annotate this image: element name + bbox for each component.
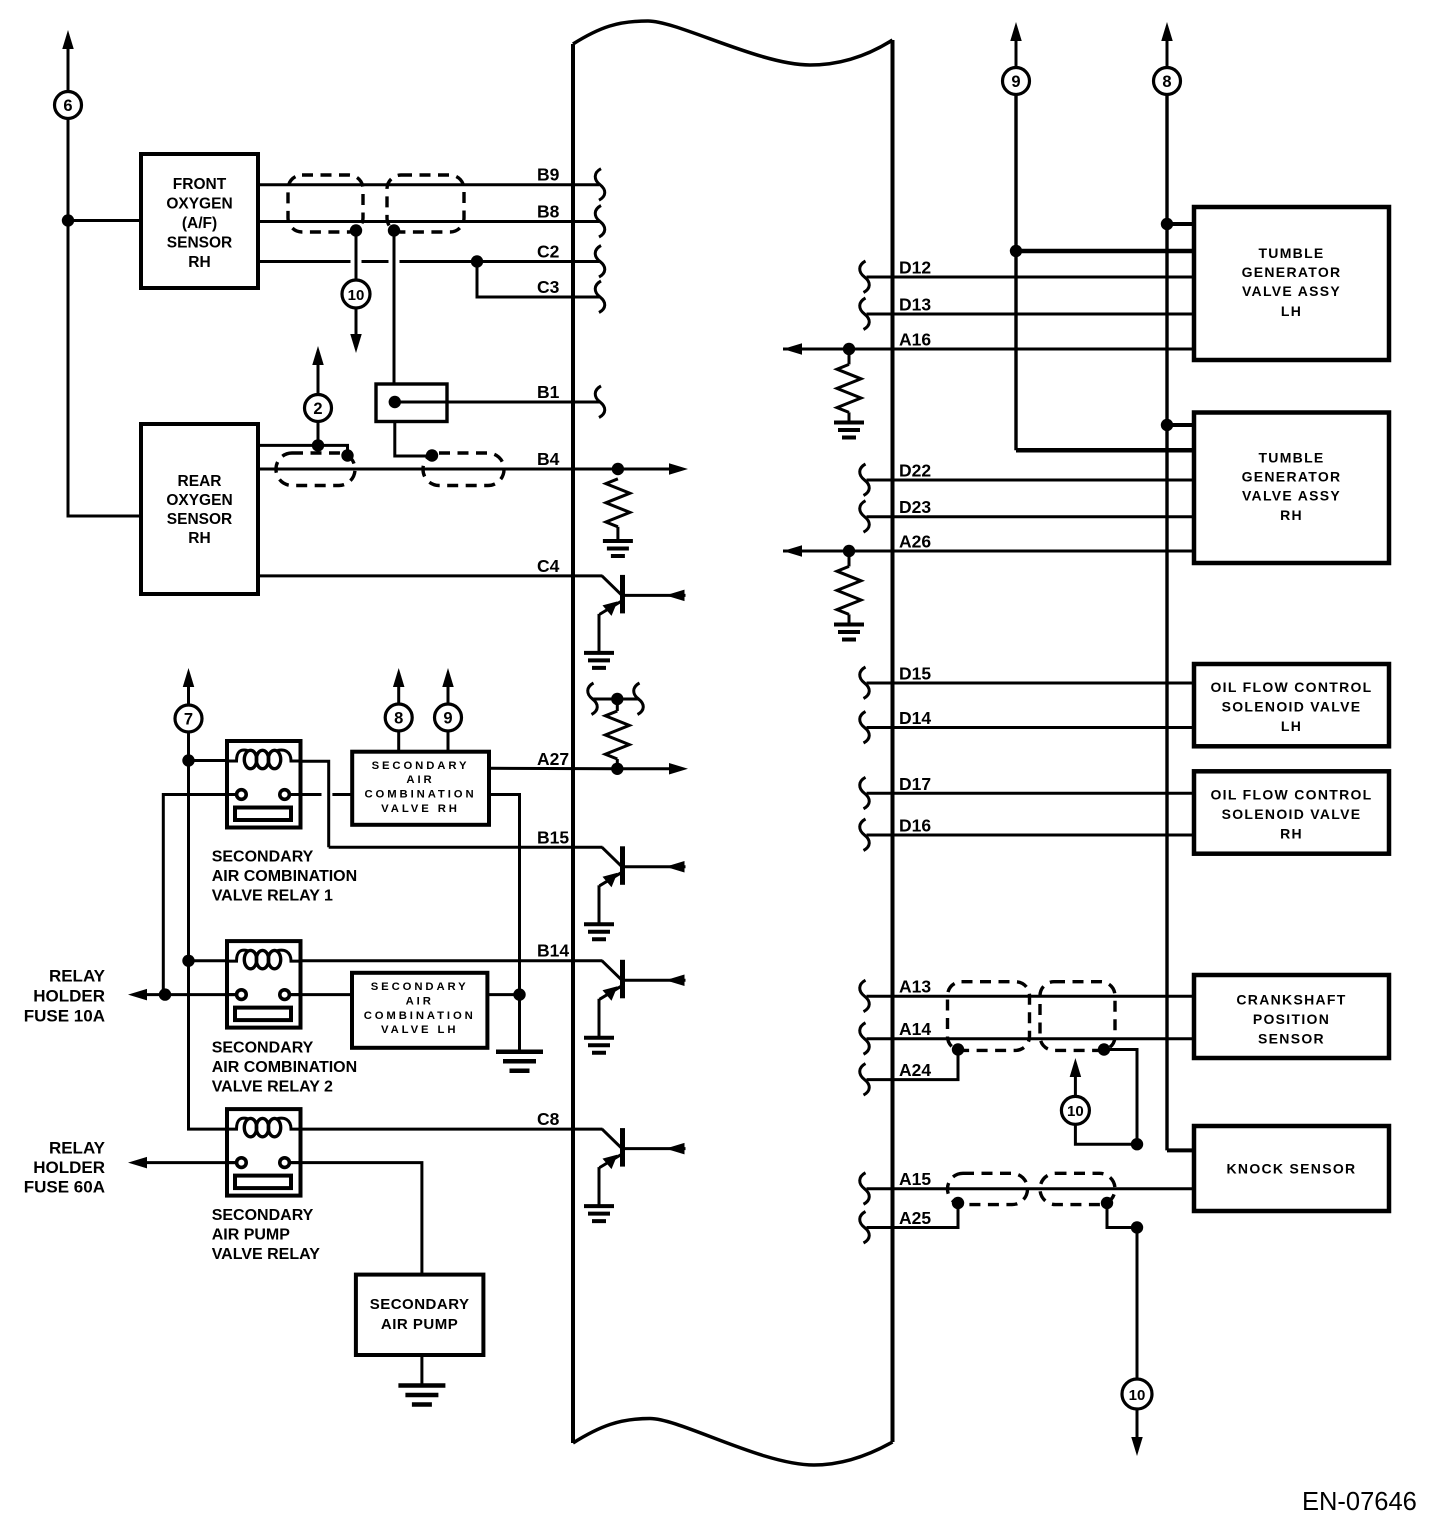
svg-text:RH: RH: [1280, 826, 1303, 842]
wire rail 8 to tumble RH: [1167, 423, 1194, 427]
knock sensor box: [1194, 1126, 1389, 1211]
svg-text:VALVE ASSY: VALVE ASSY: [1242, 488, 1341, 504]
wire D13: [867, 313, 1195, 316]
wire circle 2 stem: [317, 422, 320, 446]
svg-text:SECONDARY: SECONDARY: [372, 760, 470, 772]
svg-text:HOLDER: HOLDER: [33, 986, 105, 1005]
svg-text:(A/F): (A/F): [182, 215, 217, 232]
wire relay1 left terminal feed: [163, 795, 236, 995]
svg-text:A26: A26: [899, 532, 931, 552]
arrow up circuit 8 valve: [393, 668, 405, 687]
svg-text:LH: LH: [1281, 303, 1302, 319]
wire D15: [867, 682, 1195, 685]
front oxygen sensor box: [141, 154, 258, 288]
svg-text:GENERATOR: GENERATOR: [1242, 469, 1342, 485]
node rail 8 tumble RH tap: [1161, 419, 1173, 431]
pin B8 squiggle: [595, 206, 605, 238]
arrow up circuit 6: [62, 30, 74, 49]
circled 7: [175, 705, 202, 732]
node A15/A25 shield left: [952, 1197, 964, 1209]
tumble generator valve assy LH box: [1194, 207, 1389, 360]
wire B1 box down to B4 shield: [395, 422, 432, 457]
arrow up circuit 9 valve: [442, 668, 454, 687]
wire C2 (with crossover gaps): [258, 260, 599, 263]
wire resistor to ground: [616, 527, 619, 541]
circled 2: [305, 395, 332, 422]
svg-text:SENSOR: SENSOR: [167, 235, 232, 252]
svg-text:B4: B4: [537, 449, 560, 469]
transistor B14 driver: [602, 961, 622, 980]
wire rail 8 to tumble LH: [1167, 222, 1194, 226]
wire to front oxygen sensor: [68, 219, 141, 222]
pin D23 squiggle: [860, 501, 870, 533]
svg-text:A15: A15: [899, 1169, 931, 1189]
secondary air combination valve RH box: [352, 752, 489, 825]
svg-text:10: 10: [1129, 1387, 1146, 1404]
svg-text:LH: LH: [1281, 718, 1302, 734]
wire internal rail: [593, 698, 639, 701]
svg-text:A25: A25: [899, 1208, 931, 1228]
svg-text:D22: D22: [899, 461, 931, 481]
svg-text:2: 2: [313, 400, 322, 418]
wire B8: [258, 220, 599, 223]
node relay2 coil feed: [182, 955, 194, 967]
pin D12 squiggle: [860, 261, 870, 293]
ground A26 resistor: [834, 625, 864, 640]
ECM connector left edge: [571, 44, 575, 1443]
wire A27: [489, 767, 617, 771]
wire A26 resistor to ground: [848, 614, 851, 623]
svg-text:D16: D16: [899, 816, 931, 836]
relay secondary air combination valve relay 1: [227, 741, 301, 828]
svg-text:SECONDARY: SECONDARY: [371, 981, 469, 993]
wire A13: [867, 995, 1195, 998]
wire rear sensor top pin to shield: [258, 445, 348, 453]
pin D16 squiggle: [860, 819, 870, 851]
svg-text:AIR COMBINATION: AIR COMBINATION: [212, 1059, 357, 1076]
resistor A27 pullup: [605, 711, 629, 759]
resistor A16 pull: [837, 364, 861, 412]
shield capsule A13/A14 left: [948, 982, 1030, 1051]
resistor B4 pulldown: [606, 479, 630, 527]
svg-text:FUSE 10A: FUSE 10A: [24, 1006, 105, 1025]
node B1 junction: [389, 396, 401, 408]
arrow A16 internal: [783, 343, 802, 355]
svg-text:TUMBLE: TUMBLE: [1258, 450, 1324, 466]
wire valve LH right pin: [487, 993, 519, 996]
transistor B15 driver: [602, 847, 622, 866]
wire circle 8 to valve RH box: [397, 731, 400, 752]
wire rail 9 down to tumble RH: [1014, 95, 1017, 451]
junction box B1: [376, 384, 447, 422]
svg-text:D14: D14: [899, 708, 931, 728]
svg-text:COMBINATION: COMBINATION: [364, 789, 476, 801]
svg-text:RH: RH: [1280, 507, 1303, 523]
svg-text:D15: D15: [899, 664, 931, 684]
ground valve rail: [496, 1052, 543, 1071]
pin B1 squiggle: [595, 386, 605, 418]
node sensor shield rail top: [1131, 1138, 1143, 1150]
wire B9: [258, 183, 599, 186]
arrow up circuit 2: [317, 364, 320, 395]
svg-text:A16: A16: [899, 330, 931, 350]
node A16 resistor tap: [843, 343, 855, 355]
svg-text:POSITION: POSITION: [1253, 1011, 1330, 1027]
svg-text:8: 8: [1162, 73, 1171, 91]
ECM connector top wavy edge: [573, 21, 893, 65]
tumble generator valve assy RH box: [1194, 413, 1389, 564]
wire B4: [258, 468, 618, 471]
node sensor shield rail bottom: [1131, 1221, 1143, 1233]
svg-text:C8: C8: [537, 1109, 560, 1129]
svg-text:VALVE ASSY: VALVE ASSY: [1242, 283, 1341, 299]
wire D12: [867, 276, 1195, 279]
wire C8: [301, 1128, 603, 1131]
pin A13 squiggle: [860, 980, 870, 1012]
wire relay1 coil feed: [189, 759, 228, 762]
wire D22: [867, 479, 1195, 482]
node A13/A14 shield left: [952, 1043, 964, 1055]
wire A16 resistor to ground: [848, 412, 851, 421]
shield drain node right: [388, 224, 400, 236]
wire D14: [867, 726, 1195, 729]
svg-text:VALVE RELAY 1: VALVE RELAY 1: [212, 888, 333, 905]
wire A16: [783, 348, 1194, 351]
secondary air combination valve LH box: [352, 973, 487, 1048]
pin D17 squiggle: [860, 777, 870, 809]
arrow up circuit 10 sensor: [1074, 1077, 1077, 1096]
svg-text:C2: C2: [537, 242, 560, 262]
pin A15 squiggle: [860, 1173, 870, 1205]
svg-text:SECONDARY: SECONDARY: [212, 1207, 314, 1224]
pin D22 squiggle: [860, 464, 870, 496]
svg-text:VALVE RH: VALVE RH: [381, 803, 460, 815]
wire relay1 right terminal to valve RH (gap at crossover): [289, 793, 352, 796]
svg-text:AIR: AIR: [406, 774, 434, 786]
wire D16: [867, 834, 1195, 837]
svg-text:A13: A13: [899, 977, 931, 997]
svg-text:RELAY: RELAY: [49, 1139, 106, 1158]
shield capsule A15/A25 right: [1040, 1173, 1115, 1204]
wire B14: [301, 959, 603, 962]
relay secondary air pump valve relay: [227, 1109, 301, 1196]
wire A24: [867, 1050, 959, 1080]
arrow up circuit 8 right: [1161, 22, 1173, 41]
circled 10 sensor shield: [1061, 1096, 1089, 1124]
svg-text:D17: D17: [899, 774, 931, 794]
oil flow control solenoid valve LH box: [1194, 664, 1389, 746]
wire rail to resistor: [616, 699, 619, 711]
wire rail 8 down to knock sensor: [1165, 95, 1168, 1151]
wire relay2 coil feed: [189, 959, 228, 962]
svg-text:B15: B15: [537, 827, 569, 847]
svg-text:SOLENOID VALVE: SOLENOID VALVE: [1222, 806, 1362, 822]
wire relay3 right terminal to air pump: [290, 1163, 422, 1275]
wire A27 internal arrow: [617, 767, 670, 770]
pin A24 squiggle: [860, 1064, 870, 1096]
wire C4: [258, 574, 603, 577]
svg-text:TUMBLE: TUMBLE: [1258, 245, 1324, 261]
internal rail squiggle right: [634, 683, 644, 715]
node rail 8 tumble LH tap: [1161, 218, 1173, 230]
ECM connector right edge: [891, 40, 895, 1442]
svg-text:SENSOR: SENSOR: [1258, 1031, 1325, 1047]
svg-text:HOLDER: HOLDER: [33, 1158, 105, 1177]
wire A26: [783, 550, 1194, 553]
node B4 shield right: [426, 449, 438, 461]
svg-text:VALVE LH: VALVE LH: [381, 1024, 458, 1036]
transistor C4 driver: [602, 576, 622, 595]
svg-text:SENSOR: SENSOR: [167, 511, 232, 528]
node internal rail: [611, 693, 623, 705]
shield capsule B4 right: [423, 453, 504, 486]
wire B1: [395, 401, 599, 404]
wire air pump to ground: [420, 1355, 423, 1385]
svg-text:6: 6: [63, 97, 72, 115]
svg-text:OXYGEN: OXYGEN: [166, 492, 232, 509]
wire resistor to A27 node: [616, 759, 619, 769]
svg-text:EN-07646: EN-07646: [1302, 1488, 1417, 1516]
svg-text:B8: B8: [537, 202, 560, 222]
node rail 9 tumble LH tap: [1010, 245, 1022, 257]
circled 10 bottom: [1122, 1379, 1152, 1409]
relay secondary air combination valve relay 2: [227, 941, 301, 1028]
svg-text:RH: RH: [188, 254, 210, 271]
ECM connector bottom wavy edge: [573, 1419, 893, 1466]
arrow down circuit 10: [355, 309, 358, 335]
svg-text:RELAY: RELAY: [49, 966, 106, 985]
svg-text:B1: B1: [537, 382, 560, 402]
shield capsule A15/A25 left: [948, 1173, 1028, 1204]
svg-text:D13: D13: [899, 295, 931, 315]
pin A14 squiggle: [860, 1023, 870, 1055]
svg-text:OIL FLOW CONTROL: OIL FLOW CONTROL: [1210, 679, 1372, 695]
node circled 2 tap: [312, 439, 324, 451]
circled 8 right: [1154, 68, 1181, 95]
wire left rail from circle 6 down to rear sensor elbow: [68, 119, 141, 517]
arrow up circuit 9 right: [1010, 22, 1022, 41]
svg-text:C4: C4: [537, 556, 560, 576]
pin B9 squiggle: [595, 169, 605, 201]
wire A15: [867, 1187, 1195, 1190]
oil flow control solenoid valve RH box: [1194, 771, 1389, 853]
wire shield drain to circle 10: [355, 231, 358, 281]
wire rail to circle 10: [1075, 1125, 1137, 1144]
node C2/C3 junction: [471, 255, 483, 267]
wire rail 7 down to relay 3 coil: [189, 732, 228, 1129]
svg-text:GENERATOR: GENERATOR: [1242, 264, 1342, 280]
pin A25 squiggle: [860, 1212, 870, 1244]
wire rail down to circle 10 bottom: [1136, 1228, 1139, 1380]
internal rail squiggle left: [588, 683, 598, 715]
svg-text:KNOCK SENSOR: KNOCK SENSOR: [1227, 1160, 1357, 1176]
wire relay1 coil exit to B15: [301, 761, 329, 847]
wire relay2 right terminal to valve LH: [289, 993, 352, 996]
svg-text:AIR PUMP: AIR PUMP: [212, 1226, 291, 1243]
wire valve RH right pin down rail: [489, 795, 520, 1052]
svg-text:A14: A14: [899, 1019, 931, 1039]
svg-text:A27: A27: [537, 749, 569, 769]
circled 9 valve RH: [435, 704, 462, 731]
wire B15: [329, 846, 603, 849]
shield capsule B9/B8 left: [288, 175, 363, 232]
shield capsule B9/B8 right: [387, 175, 464, 232]
arrow relay holder fuse 60A: [128, 1157, 147, 1169]
arrow up circuit 7: [183, 668, 195, 687]
wire shield right to sensor ground rail: [1104, 1050, 1137, 1145]
svg-text:C3: C3: [537, 277, 560, 297]
wire rail 9 to tumble LH: [1016, 249, 1194, 254]
shield drain node left: [350, 224, 362, 236]
svg-text:FUSE 60A: FUSE 60A: [24, 1178, 105, 1197]
node A15/A25 shield right: [1101, 1197, 1113, 1209]
svg-text:8: 8: [394, 709, 403, 727]
crankshaft position sensor box: [1194, 975, 1389, 1058]
ground air pump: [398, 1386, 445, 1405]
node A27 internal: [611, 763, 623, 775]
node valve LH rail junction: [513, 988, 525, 1000]
svg-text:FRONT: FRONT: [173, 176, 227, 193]
svg-text:D23: D23: [899, 497, 931, 517]
svg-text:AIR PUMP: AIR PUMP: [381, 1316, 458, 1333]
resistor A26 pull: [837, 566, 861, 614]
secondary air pump box: [356, 1275, 484, 1355]
svg-text:10: 10: [348, 287, 365, 304]
shield capsule A13/A14 right: [1040, 982, 1115, 1051]
wire D17: [867, 792, 1195, 795]
svg-text:9: 9: [1011, 73, 1020, 91]
transistor C8 driver: [602, 1129, 622, 1148]
svg-text:7: 7: [184, 710, 193, 728]
node B4 shield left: [341, 449, 353, 461]
pin C2 squiggle: [595, 246, 605, 278]
wire relay holder 60A to relay3: [147, 1161, 237, 1164]
svg-text:SECONDARY: SECONDARY: [212, 848, 314, 865]
svg-text:SECONDARY: SECONDARY: [212, 1040, 314, 1057]
svg-text:VALVE RELAY: VALVE RELAY: [212, 1246, 321, 1263]
circled 9 right: [1003, 68, 1030, 95]
node relay1 coil feed: [182, 754, 194, 766]
node junction front sensor feed: [62, 214, 74, 226]
svg-text:10: 10: [1067, 1103, 1084, 1120]
svg-text:SOLENOID VALVE: SOLENOID VALVE: [1222, 699, 1362, 715]
svg-text:AIR: AIR: [406, 995, 434, 1007]
wire C3: [477, 262, 599, 298]
svg-text:COMBINATION: COMBINATION: [364, 1010, 476, 1022]
wire A25: [867, 1203, 959, 1228]
svg-text:D12: D12: [899, 258, 931, 278]
wire A26 node to resistor: [848, 551, 851, 566]
svg-text:B14: B14: [537, 941, 569, 961]
svg-text:SECONDARY: SECONDARY: [370, 1296, 470, 1313]
circled 6: [55, 92, 82, 119]
arrow down circuit 10 bottom: [1136, 1409, 1139, 1437]
svg-text:AIR COMBINATION: AIR COMBINATION: [212, 868, 357, 885]
svg-text:9: 9: [443, 709, 452, 727]
ground B4 resistor: [603, 541, 633, 556]
svg-text:OIL FLOW CONTROL: OIL FLOW CONTROL: [1210, 787, 1372, 803]
ground A16 resistor: [834, 423, 864, 438]
arrow A26 internal: [783, 545, 802, 557]
node fuse 10A branch: [159, 988, 171, 1000]
pin D15 squiggle: [860, 667, 870, 699]
wire relay holder 10A to relay2: [147, 993, 237, 996]
circled 10 shield drain: [342, 280, 370, 308]
circled 8 valve RH: [385, 704, 412, 731]
svg-text:A24: A24: [899, 1060, 931, 1080]
svg-text:REAR: REAR: [178, 473, 222, 490]
wire shield drain to B1 junction box: [393, 231, 396, 385]
pin D13 squiggle: [860, 298, 870, 330]
wire D23: [867, 515, 1195, 518]
wire circle 9 to valve RH box: [447, 731, 450, 752]
shield capsule B4 left: [276, 453, 355, 486]
node B4 internal: [612, 463, 624, 475]
svg-text:RH: RH: [188, 530, 210, 547]
svg-text:CRANKSHAFT: CRANKSHAFT: [1236, 992, 1346, 1008]
arrow relay holder fuse 10A: [128, 989, 147, 1001]
svg-text:B9: B9: [537, 165, 560, 185]
pin D14 squiggle: [860, 712, 870, 744]
svg-text:OXYGEN: OXYGEN: [166, 196, 232, 213]
wire A14: [867, 1037, 1195, 1040]
wire A15 shield to rail: [1107, 1203, 1137, 1228]
pin C3 squiggle: [595, 281, 605, 313]
node A26 resistor tap: [843, 545, 855, 557]
wire B4 internal arrow: [618, 468, 670, 471]
wire A16 node to resistor: [848, 349, 851, 364]
node A13/A14 shield right: [1098, 1043, 1110, 1055]
svg-text:VALVE RELAY 2: VALVE RELAY 2: [212, 1079, 333, 1096]
rear oxygen sensor box: [141, 424, 258, 594]
